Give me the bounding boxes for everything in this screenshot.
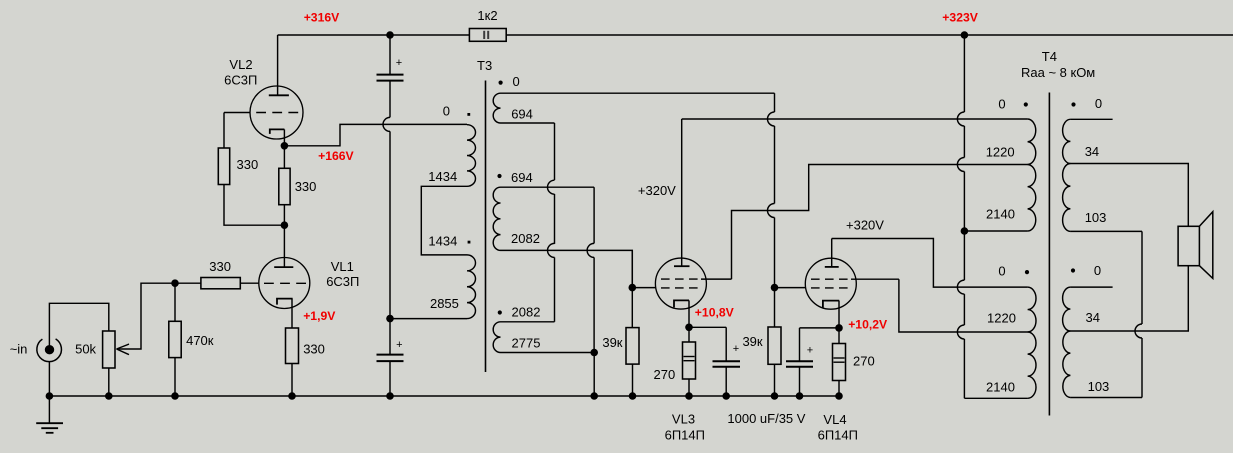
wire 270 VL3 leads [688, 327, 690, 342]
wire T4 sec 0 upper stub [1070, 118, 1112, 120]
svg-text:1к2: 1к2 [477, 8, 497, 23]
resistor 330 VL2 cathode [279, 168, 290, 204]
svg-text:0: 0 [998, 264, 1005, 279]
svg-text:270: 270 [654, 367, 676, 382]
transformer T3 primary winding 1434 upper [467, 125, 476, 187]
junction grid node to 470k [171, 279, 179, 287]
transformer T4 core [1048, 93, 1050, 416]
phase dot T4 upper left [1024, 102, 1028, 106]
transformer T3 secondary winding 2082-2775 [493, 322, 500, 353]
junction jack ground [46, 392, 54, 400]
wire VL1 grid wire to pot wiper [117, 283, 201, 349]
phase dot T3 secondary mid [497, 174, 501, 178]
capacitor VL3 cathode [713, 360, 741, 362]
tube VL2 envelope [250, 86, 303, 139]
svg-text:330: 330 [237, 157, 259, 172]
wire 39к VL4 bottom lead [774, 364, 776, 396]
transformer T4 secondary upper 0-34 [1063, 119, 1071, 163]
transformer T4 secondary lower 34-103 [1063, 331, 1071, 398]
svg-text:+: + [733, 343, 739, 355]
svg-text:Raa ~ 8 кОм: Raa ~ 8 кОм [1021, 65, 1095, 80]
tube VL4 plate [831, 239, 833, 267]
wire T3 sec 0 to VL4 grid riser top [501, 92, 775, 94]
svg-text:1434: 1434 [428, 169, 457, 184]
wire ground rail [49, 395, 841, 397]
transformer T3 primary winding 2855 lower [467, 255, 476, 319]
svg-text:2140: 2140 [986, 380, 1015, 395]
svg-text:2082: 2082 [511, 231, 540, 246]
wire T3 sec 2082 lower link [501, 321, 555, 323]
wire 470к bottom lead [174, 358, 176, 396]
svg-text:34: 34 [1086, 310, 1100, 325]
svg-text:+10,2V: +10,2V [848, 318, 888, 332]
svg-text:1434: 1434 [428, 234, 457, 249]
tube VL1 grid [264, 282, 306, 284]
svg-text:+323V: +323V [942, 11, 978, 25]
phase dot T3 primary lower [468, 241, 471, 244]
wire T4 103 upper to lower link [1070, 230, 1142, 232]
svg-text:+320V: +320V [846, 218, 884, 233]
wire PSU caps middle [383, 117, 390, 131]
transformer T4 secondary lower 0-34 [1063, 287, 1071, 331]
svg-text:2775: 2775 [512, 336, 541, 351]
tube VL3 cathode [674, 300, 689, 307]
svg-text:+316V: +316V [304, 11, 340, 25]
svg-text:1000 uF/35 V: 1000 uF/35 V [727, 411, 805, 426]
resistor 270 VL4 [833, 344, 846, 381]
wire VL1 cathode resistor to ground rail [291, 364, 293, 397]
resistor 39к VL4 [768, 327, 781, 364]
junction VL4 cathode [835, 324, 843, 332]
transformer T4 primary lower 0-1220 [1028, 287, 1036, 332]
svg-text:103: 103 [1085, 210, 1107, 225]
svg-text:694: 694 [511, 170, 533, 185]
wire VL4 plate to T4 0 lower [832, 239, 1028, 288]
svg-text:694: 694 [511, 107, 533, 122]
svg-text:39к: 39к [602, 335, 622, 350]
wire T4 34 upper to speaker [1070, 164, 1188, 227]
wire VL3 cathode node [689, 326, 726, 328]
junction VL1 plate node [281, 221, 289, 229]
phase dot T4 lower left [1025, 270, 1029, 274]
wire VL2 cathode to T3 primary top [284, 124, 467, 145]
svg-text:+166V: +166V [318, 149, 354, 163]
transformer T4 primary upper 0-1220 [1028, 119, 1036, 165]
svg-text:270: 270 [853, 354, 875, 369]
svg-text:6С3П: 6С3П [224, 72, 257, 87]
junction 270 VL3 ground [685, 392, 693, 400]
wire R330 to VL1 plate node [224, 185, 284, 226]
wire 39к VL4 top lead [774, 288, 776, 327]
svg-text:+: + [396, 339, 402, 351]
wire VL3 plate to T4 0 upper [682, 118, 1028, 120]
svg-text:0: 0 [513, 74, 520, 89]
wire T3 sec 694 link down [501, 122, 555, 124]
junction T3 ground riser rail [590, 392, 598, 400]
wire T3 sec 2082 to VL3 grid [501, 250, 633, 287]
resistor 1к2 [469, 29, 506, 42]
tube VL4 cathode [823, 301, 839, 308]
svg-text:VL4: VL4 [823, 412, 846, 427]
junction PSU mid to T3 primary bottom [386, 315, 394, 323]
wire VL2 grid to R330 [223, 113, 225, 149]
svg-text:2855: 2855 [430, 296, 459, 311]
wire 39к VL3 top lead [631, 288, 633, 328]
svg-text:330: 330 [209, 259, 231, 274]
svg-text:VL1: VL1 [331, 259, 354, 274]
tube VL4 envelope [805, 258, 856, 309]
wire 39к VL3 bottom lead [632, 364, 634, 396]
svg-text:470к: 470к [186, 333, 214, 348]
tube VL2 plate [277, 35, 279, 95]
transformer T4 secondary upper 34-103 [1063, 164, 1071, 232]
junction VL4 cap ground [796, 392, 804, 400]
svg-text:103: 103 [1088, 379, 1110, 394]
phase dot T4 upper right [1071, 102, 1075, 106]
capacitor PSU top [377, 74, 404, 76]
svg-text:+1,9V: +1,9V [303, 309, 336, 323]
resistor 330 VL1 grid [201, 278, 240, 289]
resistor 330 VL1 cathode [286, 328, 299, 364]
resistor 39к VL3 [626, 328, 639, 365]
junction +323V to T4 2140 upper [961, 227, 969, 235]
svg-text:~in: ~in [10, 342, 28, 357]
phase dot T3 secondary lower [498, 310, 502, 314]
svg-text:VL3: VL3 [672, 412, 695, 427]
junction 39к VL4 ground [771, 392, 779, 400]
wire T3 ground riser to rail [593, 353, 595, 397]
junction VL2 cathode [281, 142, 289, 150]
resistor 270 VL3 [683, 342, 696, 379]
svg-text:0: 0 [1095, 96, 1102, 111]
svg-text:1220: 1220 [986, 145, 1015, 160]
junction top rail to PSU cap [386, 31, 394, 39]
svg-text:39к: 39к [742, 334, 762, 349]
tube VL4 screen grid [811, 278, 851, 280]
transformer T3 secondary winding 694-2082 [493, 187, 500, 250]
wire +323V riser [963, 35, 965, 112]
tube VL2 grid [256, 112, 298, 114]
tube VL1 envelope [259, 258, 310, 309]
svg-text:6П14П: 6П14П [665, 427, 705, 442]
wire pot bottom lead [108, 368, 110, 396]
junction VL4 grid node [771, 284, 779, 292]
tube VL4 control grid [811, 287, 851, 289]
phase dot T3 secondary 0 [499, 81, 503, 85]
wire T4 34 lower to speaker [1070, 266, 1188, 331]
svg-text:0: 0 [1094, 263, 1101, 278]
transformer T4 primary upper 1220-2140 [1028, 165, 1036, 232]
transformer T3 core [485, 81, 487, 373]
svg-text:50k: 50k [75, 342, 96, 357]
junction VL3 grid node [629, 284, 637, 292]
junction VL1 cathode resistor ground [288, 392, 296, 400]
tube VL1 cathode [277, 299, 293, 305]
junction VL3 cap ground [722, 392, 730, 400]
wire VL4 grid node to tube [775, 287, 806, 289]
resistor 470к [169, 321, 181, 357]
wire pot top lead [49, 303, 108, 346]
tube VL3 envelope [655, 258, 706, 309]
svg-text:2082: 2082 [512, 305, 541, 320]
wire T4 2140 lower lead [964, 397, 1027, 399]
wire 470к top lead [174, 283, 176, 321]
tube VL3 plate [681, 119, 683, 266]
transformer T4 primary lower 1220-2140 [1028, 332, 1036, 398]
svg-text:6С3П: 6С3П [326, 274, 359, 289]
capacitor PSU bottom [377, 354, 404, 356]
svg-text:330: 330 [303, 342, 325, 357]
svg-text:6П14П: 6П14П [818, 427, 858, 442]
junction T3 2775 to ground riser [590, 349, 598, 357]
svg-text:+320V: +320V [638, 183, 676, 198]
wire 270 VL4 top lead [838, 328, 840, 344]
transformer T3 secondary winding 0-694 [493, 93, 500, 123]
junction 470к ground [171, 392, 179, 400]
phase dot T3 primary upper [467, 113, 470, 116]
svg-text:0: 0 [998, 97, 1005, 112]
svg-text:330: 330 [295, 179, 317, 194]
tube VL3 screen grid [661, 278, 701, 280]
junction 39к VL3 ground [629, 392, 637, 400]
svg-text:Т4: Т4 [1042, 49, 1057, 64]
svg-text:2140: 2140 [986, 207, 1015, 222]
wire T3 sec 2775 lead [501, 352, 595, 354]
wire top +316V/+323V power rail [278, 34, 1233, 36]
junction pot ground [105, 392, 113, 400]
wire VL4 screen to T4 tap 1220 lower [899, 279, 1028, 332]
junction VL3 cathode [685, 324, 693, 332]
resistor 330 VL2 grid [218, 148, 229, 185]
wire T3 primary series link [421, 186, 467, 255]
svg-text:Т3: Т3 [477, 58, 492, 73]
svg-text:34: 34 [1085, 144, 1099, 159]
connector input jack [37, 339, 62, 362]
potentiometer 50k [103, 331, 115, 368]
wire T3 primary bottom to PSU mid [390, 318, 467, 320]
wire T3 0 riser to VL4 grid [774, 93, 776, 112]
speaker [1178, 226, 1199, 265]
wire T3 sec 694 tap to ground riser [501, 186, 595, 188]
wire VL2 cathode resistor leads [283, 146, 285, 169]
capacitor VL4 cathode [786, 360, 813, 362]
svg-text:+: + [396, 57, 402, 69]
wire VL3 grid node [631, 250, 633, 287]
svg-text:1220: 1220 [987, 311, 1016, 326]
svg-text:VL2: VL2 [229, 57, 252, 72]
svg-text:+: + [807, 345, 813, 357]
wire jack to ground rail [48, 362, 50, 396]
junction top rail to +323V riser [961, 31, 969, 39]
wire VL3 screen to T4 tap 1220 upper [732, 165, 1028, 280]
wire T4 sec 0 lower stub [1070, 286, 1112, 288]
potentiometer 50k wiper arrow [117, 344, 130, 349]
wire VL4 cathode node [800, 327, 840, 329]
tube VL2 cathode [270, 129, 285, 134]
svg-text:0: 0 [443, 103, 450, 118]
phase dot T4 lower right [1071, 268, 1075, 272]
svg-text:+10,8V: +10,8V [695, 306, 735, 320]
tube VL1 plate [283, 225, 285, 267]
wire T4 2140 upper lead [964, 230, 1027, 232]
tube VL3 control grid [661, 287, 701, 289]
junction PSU cap ground [386, 392, 394, 400]
wire VL3 grid node to tube [632, 287, 655, 289]
ground symbol [48, 396, 50, 423]
